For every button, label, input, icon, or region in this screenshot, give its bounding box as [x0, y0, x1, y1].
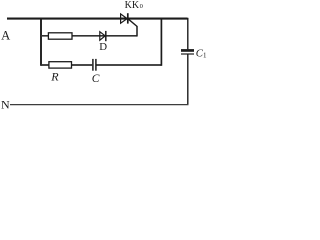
diode D — [100, 31, 106, 41]
svg-text:C: C — [92, 73, 100, 85]
wire row2 horizontal — [41, 35, 137, 37]
wire right bus lower — [187, 54, 189, 104]
thyristor KK0 — [121, 13, 128, 23]
resistor (row 2) — [48, 33, 72, 39]
svg-text:R: R — [50, 69, 59, 83]
wire row3 horizontal right of C — [96, 64, 161, 66]
svg-text:KK0: KK0 — [125, 0, 143, 11]
wire left vertical bus — [40, 18, 42, 66]
wire gate vertical — [136, 26, 138, 36]
capacitor C1 (electrolytic, right bus) — [181, 49, 194, 54]
svg-text:D: D — [99, 41, 107, 53]
svg-text:C1: C1 — [196, 48, 207, 60]
wire gate diagonal — [128, 19, 137, 27]
resistor R (row 3) — [49, 62, 72, 68]
capacitor C — [93, 59, 96, 71]
wire row3 horizontal left of C — [41, 64, 92, 66]
wire right bus upper — [187, 18, 189, 50]
svg-text:A: A — [1, 29, 10, 43]
wire bottom bus N — [10, 104, 189, 106]
svg-text:N: N — [1, 98, 10, 112]
wire top bus A — [7, 18, 188, 20]
wire row3 right vertical — [160, 19, 162, 66]
